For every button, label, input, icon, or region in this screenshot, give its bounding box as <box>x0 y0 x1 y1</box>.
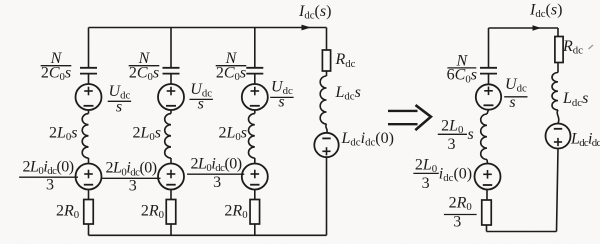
wire circuit-1 bottom bus <box>89 234 327 236</box>
wire branch 2 source to resistor <box>170 190 172 200</box>
svg-text:s: s <box>468 126 474 143</box>
wire branch 2 top stem <box>170 28 172 68</box>
voltage source 2L0idc(0)/3 branch 2 <box>158 164 184 190</box>
svg-text:2L0​s: 2L0​s <box>218 125 247 144</box>
label Ldc·s circuit 2 <box>562 90 588 109</box>
label 2R0 branch 3 <box>224 203 247 222</box>
voltage source Udc/s circuit 2 <box>476 84 501 109</box>
label Udc/s branch 1 <box>108 83 131 116</box>
inductor Ldc·s circuit 1 <box>320 76 327 133</box>
equivalence arrow (double arrow) <box>388 105 431 130</box>
svg-text:s: s <box>278 94 284 111</box>
wire branch 2 bottom stem <box>170 224 172 235</box>
label 2L0s branch 3 <box>218 125 247 144</box>
voltage source Udc/s branch 1 <box>76 84 102 110</box>
wire branch 1 bottom stem <box>88 224 90 235</box>
svg-text:Idc​(s): Idc​(s) <box>298 3 331 22</box>
svg-text:s: s <box>116 99 122 116</box>
label N/6C0s <box>447 52 477 85</box>
voltage source (2L0/3)idc(0) circuit 2 <box>475 164 501 190</box>
wire branch 1 cap to source <box>88 74 90 85</box>
wire circuit-1 right branch top stem <box>326 28 328 51</box>
wire circuit-2 left branch top stem <box>488 28 490 68</box>
wire Rdc to Ldc circuit 2 <box>557 63 559 73</box>
current arrow Idc(s) on circuit-2 top bus <box>533 25 542 30</box>
voltage source Udc/s branch 3 <box>242 84 268 110</box>
svg-text:3: 3 <box>422 175 430 192</box>
faint stray scan mark <box>589 45 594 49</box>
svg-text:2L0​s: 2L0​s <box>132 125 161 144</box>
wire Rdc to Ldc circuit 1 <box>326 71 328 76</box>
voltage source 2L0idc(0)/3 branch 3 <box>242 164 268 190</box>
voltage source Udc/s branch 2 <box>158 84 184 110</box>
inductor 2L0s branch 3 <box>248 110 254 164</box>
label Ldc·idc(0) circuit 1 <box>341 130 394 149</box>
wire circuit-2 top bus <box>489 27 559 29</box>
svg-text:Idc​(s): Idc​(s) <box>529 2 562 21</box>
wire branch 3 bottom stem <box>254 224 256 235</box>
resistor 2R0/3 circuit 2 <box>482 200 492 225</box>
label 2R0 branch 1 <box>56 203 79 222</box>
label N/2C0s branch 2 <box>129 50 160 83</box>
svg-text:6C0​s: 6C0​s <box>447 67 477 86</box>
svg-text:2C0​s: 2C0​s <box>41 65 71 84</box>
wire circuit-2 right branch bottom stem <box>557 149 559 232</box>
inductor 2L0s branch 1 <box>82 110 88 164</box>
svg-text:3: 3 <box>46 176 54 193</box>
svg-text:3: 3 <box>448 136 456 153</box>
label Idc(s) circuit 2 <box>529 2 562 21</box>
label (2L0/3)idc(0) circuit 2 <box>413 156 472 192</box>
svg-text:3: 3 <box>129 177 137 194</box>
capacitor N/2C0s branch 3 <box>246 68 263 74</box>
label Udc/s branch 3 <box>270 79 293 111</box>
label Rdc circuit 1 <box>335 51 356 70</box>
inductor 2L0s branch 2 <box>165 110 171 164</box>
resistor 2R0 branch 2 <box>166 200 176 225</box>
voltage source 2L0idc(0)/3 branch 1 <box>76 164 102 190</box>
svg-text:s: s <box>198 96 204 113</box>
wire cap to source circuit 2 <box>488 74 490 85</box>
label Rdc circuit 2 <box>562 38 583 57</box>
label 2R0 branch 2 <box>141 203 164 222</box>
wire source to resistor circuit 2 <box>486 190 488 201</box>
inductor (2L0/3)s circuit 2 <box>481 110 489 164</box>
capacitor N/6C0s <box>480 68 497 74</box>
wire circuit-1 top bus <box>89 27 327 29</box>
resistor 2R0 branch 1 <box>84 200 94 225</box>
inductor Ldc·s circuit 2 <box>552 73 559 124</box>
label N/2C0s branch 1 <box>41 50 72 83</box>
voltage source Ldc·idc(0) circuit 2 <box>546 124 571 149</box>
svg-text:3: 3 <box>213 174 221 191</box>
label 2L0idc(0)/3 branch 2 <box>102 160 160 195</box>
resistor Rdc circuit 1 <box>322 50 330 71</box>
wire circuit-2 bottom bus <box>487 231 557 233</box>
wire branch 3 source to resistor <box>254 190 256 200</box>
wire branch 2 cap to source <box>170 74 172 85</box>
label (2L0/3)s circuit 2 <box>438 117 474 153</box>
capacitor N/2C0s branch 2 <box>163 68 180 74</box>
wire circuit-1 right branch bottom stem <box>326 157 328 235</box>
label 2L0idc(0)/3 branch 3 <box>187 156 244 191</box>
label Ldc·idc(0) circuit 2 (clipped at edge) <box>570 130 600 149</box>
label Udc/s branch 2 <box>190 81 213 113</box>
label 2L0s branch 2 <box>132 125 161 144</box>
resistor Rdc circuit 2 <box>555 37 563 63</box>
label 2L0s branch 1 <box>49 125 78 144</box>
wire branch 1 top stem <box>88 28 90 68</box>
label N/2C0s branch 3 <box>216 50 247 83</box>
svg-text:2C0​s: 2C0​s <box>216 65 246 84</box>
svg-text:2L0​s: 2L0​s <box>49 125 78 144</box>
wire branch 1 source to resistor <box>88 190 90 200</box>
wire branch 3 top stem <box>254 28 256 68</box>
label 2L0idc(0)/3 branch 1 <box>19 159 78 194</box>
resistor 2R0 branch 3 <box>250 200 259 225</box>
current arrow Idc(s) on circuit-1 top bus <box>302 25 312 31</box>
label Ldc·s circuit 1 <box>335 84 361 103</box>
label Idc(s) circuit 1 <box>298 3 331 22</box>
svg-text:s: s <box>509 94 515 111</box>
label 2R0/3 circuit 2 <box>444 194 477 230</box>
svg-text:3: 3 <box>453 213 461 230</box>
voltage source Ldc·idc(0) circuit 1 <box>314 133 338 157</box>
wire circuit-2 left branch bottom stem <box>486 225 488 232</box>
wire branch 3 cap to source <box>254 74 256 85</box>
capacitor N/2C0s branch 1 <box>80 68 97 74</box>
wire circuit-2 right branch top stem <box>557 28 559 37</box>
label Udc/s circuit 2 <box>504 76 527 111</box>
svg-text:2C0​s: 2C0​s <box>129 65 159 84</box>
